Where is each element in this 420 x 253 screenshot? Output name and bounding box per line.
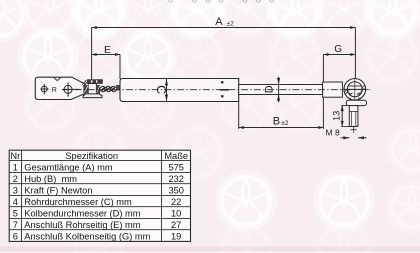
svg-text:D: D xyxy=(264,85,276,93)
cropped part number text at very top xyxy=(168,0,282,5)
svg-text:Anschluß Rohrseitig (E) mm: Anschluß Rohrseitig (E) mm xyxy=(24,220,140,230)
dimension G extension line left xyxy=(322,55,324,130)
svg-text:1: 1 xyxy=(13,163,18,173)
svg-text:Maße: Maße xyxy=(164,151,188,161)
svg-text:7: 7 xyxy=(13,220,18,230)
svg-text:E: E xyxy=(104,44,111,56)
hole 2 xyxy=(62,82,79,96)
dimension G line xyxy=(323,54,355,56)
svg-text:Spezifikation: Spezifikation xyxy=(65,151,118,161)
dimension B line xyxy=(239,127,324,129)
stud centerline cross below bolt xyxy=(351,127,357,133)
table row 7 xyxy=(13,232,182,242)
table header row xyxy=(10,151,188,161)
svg-text:±2: ±2 xyxy=(227,21,235,28)
ball stud clamp: base pedestal xyxy=(83,94,102,98)
svg-text:575: 575 xyxy=(168,163,184,173)
dimension E arrowheads xyxy=(92,53,120,56)
svg-text:Gesamtlänge (A) mm: Gesamtlänge (A) mm xyxy=(24,163,113,173)
dimension M8 xyxy=(326,128,367,140)
svg-text:6: 6 xyxy=(13,232,18,242)
squiggle end block at tube xyxy=(116,85,120,91)
svg-text:G: G xyxy=(334,44,342,55)
svg-text:R: R xyxy=(52,87,57,94)
svg-text:0 000 000: 0 000 000 xyxy=(168,0,282,5)
svg-text:±2: ±2 xyxy=(281,120,289,127)
dimension E line xyxy=(92,54,120,56)
eye ball socket outer ring xyxy=(344,79,366,101)
plate tip hatch xyxy=(83,80,88,86)
svg-text:3: 3 xyxy=(13,186,18,196)
dimension A extension line left xyxy=(91,28,93,82)
table row 2 xyxy=(13,174,184,184)
stud bolt shaft xyxy=(349,106,358,127)
bracket plate xyxy=(35,77,85,99)
table row 4 xyxy=(13,197,182,207)
ball stud clamp: top bar xyxy=(88,80,103,84)
dimension G arrowheads xyxy=(323,53,355,56)
spring squiggle connector xyxy=(99,85,118,92)
svg-text:350: 350 xyxy=(168,186,184,196)
svg-text:Hub (B) mm: Hub (B) mm xyxy=(24,174,77,184)
svg-text:A: A xyxy=(215,16,223,28)
svg-text:27: 27 xyxy=(171,220,181,230)
eye ball xyxy=(347,82,362,97)
stud washer flange xyxy=(346,100,366,105)
eye side hatch xyxy=(345,85,365,94)
svg-text:Nr: Nr xyxy=(10,151,20,161)
dimension A arrowheads xyxy=(92,26,356,29)
specification table grid xyxy=(9,150,190,241)
svg-text:19: 19 xyxy=(171,232,181,242)
dimension A line xyxy=(92,27,356,29)
dimension C xyxy=(154,79,168,101)
table row 5 xyxy=(13,209,182,219)
dimension D xyxy=(264,77,280,103)
piston marks inside tube xyxy=(220,81,229,97)
svg-text:5: 5 xyxy=(13,209,18,219)
svg-text:10: 10 xyxy=(171,209,181,219)
V-notch on plate top edge xyxy=(54,78,61,81)
svg-text:M 8: M 8 xyxy=(326,128,340,138)
stud neck xyxy=(350,98,359,101)
eye internal lines xyxy=(344,86,366,96)
table row 1 xyxy=(13,163,184,173)
svg-text:B: B xyxy=(273,116,280,128)
dimension A centerline extension right xyxy=(354,28,356,79)
svg-text:22: 22 xyxy=(171,197,181,207)
dimension B extension line left xyxy=(238,102,240,130)
svg-text:13: 13 xyxy=(331,111,341,121)
piston rod xyxy=(239,85,323,95)
cylinder tube xyxy=(120,79,239,102)
table row 3 xyxy=(13,186,184,196)
centerline axis xyxy=(62,89,370,91)
svg-text:Kraft (F) Newton: Kraft (F) Newton xyxy=(24,186,92,196)
ball stud clamp: left hatched block xyxy=(83,85,88,93)
ball stud clamp: right hatched block xyxy=(96,85,100,94)
svg-text:2: 2 xyxy=(13,174,18,184)
svg-text:Kolbendurchmesser (D) mm: Kolbendurchmesser (D) mm xyxy=(24,209,140,219)
svg-text:232: 232 xyxy=(168,174,184,184)
eye centerline vertical xyxy=(354,79,356,101)
hole 1 xyxy=(40,84,48,94)
dimension B label xyxy=(273,116,289,128)
ball stud clamp: body xyxy=(88,84,96,95)
dimension A label xyxy=(215,16,234,28)
eye centerline horizontal xyxy=(342,89,369,91)
svg-text:4: 4 xyxy=(13,197,18,207)
dimension 13 xyxy=(331,106,357,127)
svg-text:Anschluß Kolbenseitig (G) mm: Anschluß Kolbenseitig (G) mm xyxy=(24,232,150,242)
svg-text:Rohrdurchmesser (C) mm: Rohrdurchmesser (C) mm xyxy=(24,197,132,207)
rod end fitting xyxy=(323,82,343,97)
dimension B arrowheads xyxy=(239,126,324,129)
dimension E extension line right / tube front edge extension xyxy=(119,55,121,80)
table row 6 xyxy=(13,220,182,230)
